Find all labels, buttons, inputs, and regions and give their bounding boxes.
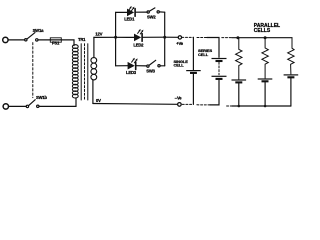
- series cell B3: [212, 76, 227, 80]
- svg-text:LED1: LED1: [124, 16, 135, 21]
- svg-text:−Ve: −Ve: [175, 96, 182, 101]
- wire series to -Ve (dashed): [197, 104, 211, 106]
- wire SW1a to fuse: [38, 39, 50, 41]
- wire LED2 to bus: [143, 36, 165, 38]
- switch SW3: [147, 60, 160, 67]
- single cell B1: [186, 70, 201, 74]
- series cell B2: [212, 58, 227, 62]
- transformer core left solid line: [80, 44, 82, 100]
- junction node 12V rail / LED rows: [114, 36, 117, 39]
- cell B4 (branch 1): [232, 79, 247, 83]
- wire +Ve to single cell (dashed): [182, 36, 194, 38]
- LED3 light arrows: [132, 58, 138, 63]
- svg-text:0V: 0V: [96, 98, 101, 103]
- terminal -Ve: [178, 103, 182, 107]
- wire SW1b to transformer: [39, 105, 76, 107]
- junction node rail / branch2: [264, 36, 267, 39]
- wire branch1 lower: [238, 84, 240, 107]
- svg-text:TR1: TR1: [78, 37, 86, 42]
- wire fuse to transformer: [61, 40, 74, 46]
- svg-text:LED3: LED3: [126, 70, 137, 75]
- terminal +Ve: [178, 36, 181, 39]
- wire terminal to SW1b: [9, 105, 27, 107]
- LED block left vertical wire: [115, 12, 117, 65]
- wire SW3 to bus: [160, 65, 165, 67]
- wire single cell to -Ve (dashed): [181, 103, 191, 105]
- svg-text:LED2: LED2: [133, 42, 144, 47]
- svg-text:SW1b: SW1b: [36, 95, 47, 100]
- svg-text:+Ve: +Ve: [176, 41, 183, 46]
- switch SW1a: [25, 33, 38, 42]
- wire LED1 row left: [116, 11, 127, 13]
- wire LED3 to SW3: [137, 65, 147, 67]
- svg-text:FS1: FS1: [52, 41, 60, 46]
- svg-text:CELL: CELL: [174, 62, 185, 67]
- svg-text:SW3: SW3: [146, 68, 155, 73]
- svg-text:SW1a: SW1a: [33, 28, 44, 33]
- resistor R1 (branch 1): [236, 38, 242, 79]
- LED2: [134, 34, 142, 42]
- wire single cell branch lower: [192, 74, 194, 104]
- LED1 light arrows: [129, 6, 135, 11]
- wire to parallel rail (dashed): [222, 37, 232, 39]
- switch SW1b: [26, 100, 39, 108]
- svg-text:CELL: CELL: [198, 52, 209, 57]
- wire bus to +Ve terminal: [165, 36, 179, 38]
- 12V rail: [94, 36, 116, 38]
- junction node rail / branch1: [236, 36, 239, 39]
- switch SW2: [147, 8, 159, 13]
- junction node bottom / branch2: [264, 105, 267, 108]
- svg-text:SW2: SW2: [147, 15, 156, 20]
- wire terminal to SW1a: [8, 39, 25, 41]
- resistor R3 (branch 3): [288, 38, 294, 74]
- wire series branch top: [207, 38, 219, 58]
- wire single cell branch upper: [192, 37, 194, 69]
- wire branch2 lower: [264, 82, 266, 106]
- transformer secondary winding: [91, 58, 97, 80]
- svg-text:12V: 12V: [95, 31, 102, 36]
- parallel bottom rail: [232, 105, 291, 107]
- input terminal top (live): [3, 37, 8, 42]
- cell B5 (branch 2): [258, 78, 273, 82]
- transformer core screen dashed line: [84, 44, 86, 100]
- svg-text:CELLS: CELLS: [254, 28, 271, 34]
- resistor R2 (branch 2): [262, 38, 268, 78]
- wire bottom rail dashed stub: [227, 105, 232, 107]
- input terminal bottom (neutral): [3, 104, 8, 109]
- LED1: [127, 9, 135, 17]
- 0V rail: [93, 103, 178, 106]
- wire LED3 row left: [116, 65, 128, 67]
- output bus vertical: [164, 12, 166, 66]
- wire secondary top lead: [93, 37, 95, 57]
- wire branch3 lower: [290, 78, 292, 106]
- wire LED2 row left: [116, 36, 134, 38]
- wire primary bottom lead: [75, 98, 77, 107]
- wire SW2 to bus: [159, 11, 164, 13]
- wire to series branch (dashed): [197, 37, 207, 39]
- transformer TR1 primary winding: [72, 45, 78, 98]
- LED3: [128, 62, 136, 70]
- LED2 light arrows: [138, 29, 144, 34]
- cell B6 (branch 3): [284, 74, 299, 78]
- transformer core right solid line: [87, 44, 89, 100]
- fuse FS1: [50, 38, 61, 42]
- gang link SW1a-SW1b (dashed): [32, 43, 34, 98]
- wire series mid (dashed, more cells): [218, 62, 220, 75]
- parallel top rail: [232, 37, 292, 39]
- wire secondary bottom lead: [92, 80, 94, 104]
- junction node bottom / branch1: [238, 105, 241, 108]
- junction node bus / +Ve: [163, 36, 166, 39]
- wire series branch bottom: [210, 80, 219, 105]
- wire LED1 to SW2: [136, 11, 147, 13]
